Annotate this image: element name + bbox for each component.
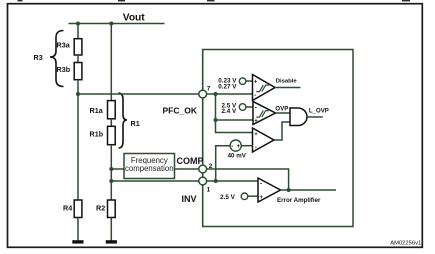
resistor R3a [74, 39, 82, 55]
svg-text:L_OVP: L_OVP [309, 107, 329, 114]
svg-text:40 mV: 40 mV [228, 153, 247, 160]
wire pin7 branch down [216, 94, 253, 133]
node junction PFC_OK tap [76, 92, 80, 96]
svg-text:R1a: R1a [90, 106, 104, 115]
svg-text:Error Amplifier: Error Amplifier [277, 197, 321, 204]
wire IC left edge [202, 50, 204, 227]
svg-text:-: - [254, 92, 256, 99]
svg-text:Vout: Vout [123, 12, 145, 23]
svg-text:COMP: COMP [177, 156, 204, 166]
svg-text:+: + [254, 80, 258, 86]
op-amp error amplifier [258, 178, 281, 202]
wire R1b down to R2 [110, 145, 112, 201]
pin 2 COMP [199, 165, 207, 173]
resistor R4 [74, 200, 82, 218]
svg-text:PFC_OK: PFC_OK [163, 106, 198, 116]
pin 1 INV [199, 177, 207, 185]
node junction OVP input [214, 118, 218, 122]
wire third comp output to AND [274, 122, 290, 140]
svg-text:7: 7 [207, 86, 211, 93]
resistor R2 [108, 200, 116, 218]
svg-text:-: - [231, 144, 233, 150]
node junction 40mV/INV [214, 179, 218, 183]
op-amp OVP comparator [253, 102, 276, 125]
wire R1a-R1b [110, 119, 112, 127]
op-amp third comparator [253, 128, 275, 152]
svg-text:+: + [254, 119, 258, 125]
svg-text:2.5 V: 2.5 V [220, 194, 236, 201]
wire pin7 to comparators [207, 93, 253, 95]
AND gate [290, 108, 307, 126]
wire source to OVP - [246, 106, 253, 108]
svg-text:R3a: R3a [57, 41, 71, 50]
svg-text:+: + [254, 132, 258, 138]
svg-text:R3: R3 [34, 53, 43, 62]
svg-text:2.4 V: 2.4 V [221, 108, 237, 115]
node junction rail/R1 [109, 22, 113, 26]
wire error amp output [281, 189, 337, 191]
resistor R1b [108, 126, 116, 144]
wire disable output [275, 87, 301, 89]
cropped caption text at very top [18, 0, 411, 1]
svg-text:AM02256v1: AM02256v1 [390, 241, 421, 247]
wire Vout rail [69, 23, 165, 25]
svg-text:-: - [260, 180, 262, 187]
wire COMP to feedback [207, 169, 289, 190]
wire R3a-R3b [77, 55, 79, 63]
node junction divider/COMP [109, 167, 113, 171]
wire box to COMP pin [175, 168, 199, 170]
resistor R3b [74, 63, 82, 80]
node junction divider/INV [109, 179, 113, 183]
wire source to + [248, 195, 258, 197]
svg-text:1: 1 [207, 186, 211, 193]
svg-text:R2: R2 [96, 204, 105, 213]
wire R1 chain vertical [110, 24, 112, 101]
wire R3b down to R4 [77, 80, 79, 201]
hysteresis glyph [256, 85, 269, 92]
wire R3 chain vertical [77, 24, 79, 40]
resistor R1a [108, 101, 116, 119]
svg-text:R1: R1 [131, 119, 140, 128]
op-amp disable comparator [253, 75, 276, 101]
node junction COMP feedback/output [287, 188, 291, 192]
frequency compensation box [124, 154, 175, 179]
IC box [203, 50, 353, 227]
node junction pin7 branch [214, 92, 218, 96]
wire R2 to ground [110, 218, 112, 241]
svg-text:0.27 V: 0.27 V [218, 84, 237, 91]
svg-text:Disable: Disable [276, 79, 298, 85]
wire R4 to ground [77, 218, 79, 241]
hysteresis glyph [256, 111, 269, 118]
brace R1 [119, 93, 128, 148]
wire INV line [111, 180, 199, 182]
svg-text:+: + [260, 195, 264, 201]
svg-text:+: + [237, 144, 241, 150]
wire source to disable + [246, 80, 252, 82]
svg-text:R4: R4 [63, 204, 72, 213]
ground right [106, 240, 117, 243]
wire PFC_OK horizontal to pin 7 [78, 93, 199, 95]
wire branch to OVP + [216, 119, 254, 121]
pin 7 PFC_OK [199, 90, 207, 98]
svg-text:INV: INV [182, 194, 197, 204]
wire 40mV to comp - [241, 145, 252, 147]
brace R3 [50, 31, 64, 87]
wire INV to error amp [207, 180, 258, 182]
svg-text:OVP: OVP [275, 105, 288, 112]
svg-text:-: - [255, 105, 257, 112]
svg-text:compensation: compensation [125, 164, 174, 173]
ground left [72, 240, 83, 243]
svg-text:R3b: R3b [57, 65, 71, 74]
svg-text:-: - [255, 144, 257, 151]
wire 40mV to INV line [216, 146, 230, 181]
svg-text:R1b: R1b [90, 130, 104, 139]
wire L_OVP output [307, 116, 323, 118]
wire OVP output [276, 112, 291, 114]
source 40mV [230, 140, 241, 151]
node junction rail/R3 [76, 22, 80, 26]
wire COMP branch from divider [111, 168, 124, 170]
